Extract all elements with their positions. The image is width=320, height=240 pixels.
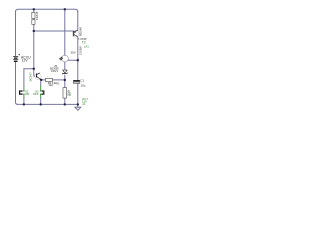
fuse F1 box upper bbox=[32, 12, 35, 18]
T2 green designator bbox=[82, 40, 86, 44]
node top at R1 branch bbox=[33, 8, 35, 10]
wire right rail C1 to bottom bbox=[77, 83, 79, 104]
node B bbox=[33, 68, 35, 70]
fuse F1 box lower bbox=[32, 20, 35, 25]
wire T1 base lead bbox=[34, 69, 35, 77]
wire lamp to zener bbox=[64, 62, 66, 70]
S2 labels bbox=[35, 90, 39, 94]
node top at lamp branch bbox=[64, 8, 66, 10]
svg-text:1k2: 1k2 bbox=[48, 83, 53, 87]
battery BT1 bbox=[13, 57, 18, 62]
svg-text:F3A15: F3A15 bbox=[35, 11, 39, 20]
battery plus sign bbox=[18, 54, 20, 56]
wire R2 to node C bbox=[53, 79, 65, 81]
svg-text:C9V1: C9V1 bbox=[51, 69, 58, 73]
C1 labels bbox=[80, 78, 84, 82]
transistor T1 circle bbox=[35, 73, 41, 79]
svg-text:C1: C1 bbox=[80, 78, 84, 82]
node S1 bottom bbox=[23, 103, 25, 105]
transistor T2 circle bbox=[72, 30, 79, 37]
svg-text:ON: ON bbox=[25, 92, 29, 96]
wire mid vertical node A to node B bbox=[33, 31, 35, 69]
node A bbox=[33, 30, 35, 32]
R3 upper-left label bbox=[56, 82, 60, 86]
wire top rail bbox=[16, 9, 78, 12]
wire branch to S1 bbox=[24, 69, 34, 87]
zener Z1 bbox=[62, 70, 67, 74]
wire S1 to bottom rail bbox=[23, 97, 25, 104]
switch S1 ON bbox=[19, 86, 25, 97]
svg-text:R3: R3 bbox=[68, 92, 72, 96]
svg-text:LA1: LA1 bbox=[84, 44, 89, 48]
wire R1 top lead bbox=[33, 9, 35, 12]
lamp green designator bbox=[84, 44, 89, 48]
R3 side labels rotated bbox=[66, 89, 70, 96]
wire right rail T2 to C1 bbox=[77, 37, 79, 80]
capacitor C1 bbox=[73, 81, 80, 83]
node ground bbox=[77, 103, 79, 105]
zener labels bbox=[54, 64, 58, 68]
wire left rail upper bbox=[15, 11, 17, 56]
wire S2 upper bbox=[40, 80, 42, 86]
resistor R3 box bbox=[63, 88, 67, 99]
svg-text:10u: 10u bbox=[81, 84, 86, 88]
wire lamp branch from top node bbox=[64, 9, 66, 55]
R2 labels bbox=[48, 81, 57, 85]
wire lamp right to right rail bbox=[68, 59, 78, 61]
wire R3 to bottom rail bbox=[64, 98, 66, 104]
wire ground stem bbox=[77, 104, 79, 107]
T1 type BC547 vertical green bbox=[29, 72, 33, 82]
wire base of T2 bbox=[34, 30, 74, 32]
svg-text:4A: 4A bbox=[82, 102, 86, 106]
node C zener R2 R3 bbox=[64, 79, 66, 81]
wire left rail lower bbox=[16, 62, 19, 105]
svg-text:BD240: BD240 bbox=[79, 27, 83, 37]
wire T1 emitter to node D bbox=[41, 79, 45, 81]
svg-text:OFF: OFF bbox=[33, 92, 39, 96]
battery label ACCU 12V bbox=[21, 55, 31, 59]
wire R1 bottom lead to node A bbox=[33, 24, 35, 31]
wire right rail upper bbox=[77, 11, 79, 30]
wire node C to R3 bbox=[64, 80, 66, 88]
transistor T1 internals bbox=[37, 73, 42, 80]
T2 PNP label bbox=[78, 37, 87, 41]
wire S2 lower bbox=[40, 97, 42, 104]
lamp vertical label bbox=[78, 46, 82, 55]
svg-text:12V: 12V bbox=[22, 58, 29, 62]
wire bottom rail bbox=[17, 103, 78, 105]
F1 side label bbox=[35, 11, 39, 20]
S1 labels bbox=[25, 90, 29, 94]
resistor R2 box bbox=[45, 78, 52, 81]
wire zener to node C bbox=[64, 75, 66, 80]
node D T1 emitter bbox=[40, 79, 42, 81]
lamp rating label bbox=[71, 50, 76, 54]
transistor T2 internals bbox=[74, 30, 78, 36]
node lamp right rail bbox=[77, 59, 79, 61]
ground symbol bbox=[75, 107, 81, 110]
net label green bottom right bbox=[82, 97, 88, 101]
svg-text:25V: 25V bbox=[71, 50, 76, 54]
svg-text:T2: T2 bbox=[82, 40, 86, 44]
T2 type vertical label BD240 bbox=[79, 27, 83, 37]
switch S2 OFF bbox=[40, 86, 44, 98]
node R3 bottom bbox=[64, 103, 66, 105]
wire R1 mid lead bbox=[33, 19, 35, 20]
node S2 bottom bbox=[40, 103, 42, 105]
lamp LA1 circle bbox=[62, 55, 69, 62]
lamp arrows bbox=[59, 57, 63, 61]
svg-text:BC547: BC547 bbox=[29, 72, 33, 82]
